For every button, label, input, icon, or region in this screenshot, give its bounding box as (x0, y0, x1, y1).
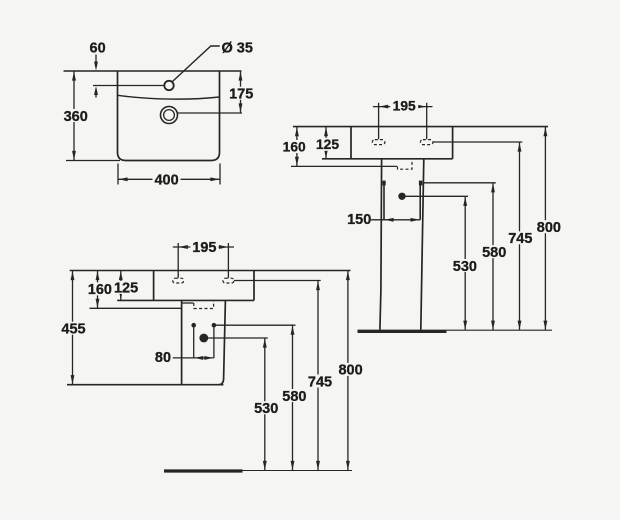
dimension 455 (61, 271, 88, 385)
extension line from right square (419, 185, 421, 220)
svg-text:160: 160 (283, 139, 306, 154)
tap hole left (dashed) front (173, 278, 184, 283)
drain reference line to 175 (178, 112, 242, 114)
svg-text:80: 80 (155, 350, 171, 366)
extension line from left dot (193, 327, 195, 358)
160 level reference line front (90, 307, 182, 309)
extension line bottom left of top view (66, 160, 120, 162)
extension line from left square (383, 185, 385, 220)
half pedestal left edge (181, 300, 183, 384)
floor line thin side (447, 329, 553, 331)
dimension 580 front (281, 325, 308, 470)
dimension 160 front (87, 271, 112, 309)
reference line drain to 530 side (406, 195, 468, 197)
reference line tap hole to 745 front (234, 280, 321, 282)
fixing hole left dot front (191, 323, 196, 328)
floor line thick front (164, 469, 243, 472)
basin bottom edge front (117, 299, 254, 301)
drain outer circle (161, 107, 178, 124)
basin back edge line (top) (64, 70, 242, 72)
svg-text:455: 455 (61, 322, 85, 338)
svg-text:60: 60 (90, 41, 106, 57)
pedestal right edge side (421, 159, 424, 330)
basin top edge line front view (70, 270, 351, 272)
basin left edge side (350, 127, 352, 159)
svg-text:360: 360 (64, 109, 88, 125)
label Ø35 (222, 40, 253, 56)
tap hole left (dashed) side (372, 140, 385, 145)
svg-text:195: 195 (393, 99, 416, 114)
svg-text:400: 400 (154, 172, 178, 188)
svg-text:580: 580 (482, 245, 506, 261)
reference line dots to 580 (216, 324, 296, 326)
dimension 400 (118, 164, 220, 189)
leader line to Ø35 (173, 46, 220, 81)
svg-text:530: 530 (254, 401, 278, 417)
svg-text:800: 800 (338, 363, 362, 379)
dimension 530 side (451, 196, 478, 330)
dimension 175 (228, 71, 254, 113)
svg-text:580: 580 (282, 389, 306, 405)
fixing hole right (square) side (419, 181, 422, 186)
dimension 580 side (481, 183, 508, 330)
floor line thin front (243, 470, 353, 472)
faucet hole circle (164, 81, 173, 90)
svg-text:175: 175 (229, 86, 253, 102)
dimension 125 front (114, 271, 139, 301)
svg-text:530: 530 (453, 259, 477, 275)
drain inner circle (164, 110, 175, 121)
dimension 80 (155, 350, 214, 366)
drain dot side (398, 193, 405, 200)
svg-text:745: 745 (308, 374, 332, 390)
dimension 125 side (315, 127, 340, 159)
basin top edge line side view (293, 126, 548, 128)
tap hole right (dashed) front (223, 278, 234, 283)
basin left edge front (153, 271, 155, 301)
dimension 195 side (373, 99, 433, 140)
fixing hole left (square) side (382, 181, 385, 186)
dimension 150 (347, 212, 420, 228)
dimension 195 front (173, 240, 234, 278)
basin inner rim curve (118, 95, 220, 99)
svg-text:125: 125 (114, 281, 138, 297)
dimension 800 side (535, 127, 562, 331)
basin outline top view (118, 71, 220, 161)
reference line tap hole to 745 side (433, 141, 522, 143)
dimension 60 (90, 41, 106, 98)
svg-text:Ø 35: Ø 35 (222, 40, 253, 56)
pedestal base plate thick (358, 330, 447, 333)
dimension 745 front (307, 281, 334, 471)
extension line from right dot (213, 327, 215, 358)
basin right edge front (253, 271, 255, 301)
svg-text:195: 195 (192, 240, 216, 256)
reference line square dot to 580 side (423, 182, 496, 184)
faucet hole reference line (93, 85, 164, 87)
svg-text:745: 745 (508, 231, 532, 247)
dimension 360 (62, 71, 89, 161)
dimension 530 front (253, 338, 280, 471)
pedestal ledge line front (182, 302, 194, 304)
half pedestal right edge (219, 300, 226, 384)
pedestal left edge side (380, 159, 382, 330)
svg-text:160: 160 (88, 282, 112, 298)
fixing hole right dot front (212, 323, 217, 328)
tap hole right (dashed) side (420, 140, 433, 145)
160 level reference line side (291, 165, 397, 167)
basin bottom edge side (322, 158, 453, 160)
svg-text:800: 800 (537, 220, 561, 236)
pedestal bottom / 455 reference line (67, 384, 223, 386)
reference line drain to 530 (208, 337, 268, 339)
dimension 800 front (337, 271, 364, 471)
dashed siphon outline side (398, 159, 413, 169)
svg-text:150: 150 (347, 212, 371, 228)
dashed siphon outline front (194, 300, 214, 308)
svg-text:125: 125 (316, 137, 339, 152)
drain dot front (199, 334, 208, 343)
dimension 745 side (507, 142, 534, 330)
basin right edge side (452, 127, 454, 159)
dimension 160 side (282, 127, 307, 167)
